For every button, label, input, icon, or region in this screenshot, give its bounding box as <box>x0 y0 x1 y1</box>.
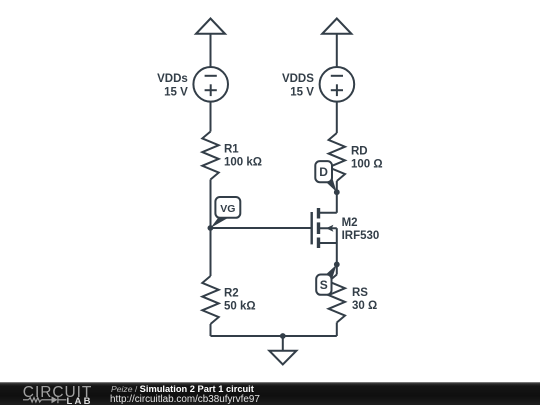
power flag VDDs (left) <box>196 19 225 34</box>
voltage source V2 VDDS <box>320 67 355 102</box>
svg-text:VDDS: VDDS <box>282 73 314 85</box>
svg-text:VG: VG <box>220 203 235 215</box>
svg-text:15 V: 15 V <box>290 87 314 99</box>
ground <box>269 336 296 365</box>
voltage source V1 VDDs <box>193 67 228 102</box>
wire gate <box>210 227 311 229</box>
wire <box>210 180 212 277</box>
svg-text:M2: M2 <box>342 217 358 229</box>
svg-text:VDDs: VDDs <box>157 73 188 85</box>
CircuitLab logo <box>0 382 100 405</box>
wire <box>336 181 338 213</box>
footer bar <box>0 382 540 405</box>
junction dot ground <box>280 333 286 339</box>
svg-text:100 kΩ: 100 kΩ <box>224 157 262 169</box>
svg-text:30 Ω: 30 Ω <box>352 300 377 312</box>
wire <box>336 102 338 133</box>
junction dot VG <box>208 225 214 231</box>
svg-text:RD: RD <box>351 146 368 158</box>
wire <box>210 34 212 67</box>
node S flag <box>316 265 336 295</box>
svg-text:15 V: 15 V <box>164 87 188 99</box>
junction dot S <box>334 262 340 268</box>
MOSFET M2 <box>312 208 337 264</box>
svg-text:100 Ω: 100 Ω <box>351 159 383 171</box>
wire <box>336 323 338 337</box>
svg-text:RS: RS <box>352 287 368 299</box>
resistor R1 <box>202 132 218 180</box>
svg-text:D: D <box>319 165 328 179</box>
node VG flag <box>211 197 241 228</box>
wire bottom rail <box>211 335 337 337</box>
svg-text:R1: R1 <box>224 144 239 156</box>
svg-text:LAB: LAB <box>67 396 93 405</box>
svg-text:IRF530: IRF530 <box>342 230 380 242</box>
resistor RD <box>329 133 345 181</box>
node D flag <box>315 161 336 192</box>
power flag VDDS (right) <box>322 19 351 34</box>
resistor RS <box>329 275 345 323</box>
wire <box>336 34 338 67</box>
footer text line 2 <box>110 394 260 405</box>
svg-text:S: S <box>320 278 328 292</box>
wire <box>210 324 212 336</box>
junction dot D <box>334 189 340 195</box>
resistor R2 <box>202 276 218 324</box>
footer text line 1 <box>111 384 254 394</box>
wire <box>336 264 338 274</box>
svg-text:50 kΩ: 50 kΩ <box>224 301 256 313</box>
svg-text:R2: R2 <box>224 288 239 300</box>
wire <box>210 102 212 132</box>
